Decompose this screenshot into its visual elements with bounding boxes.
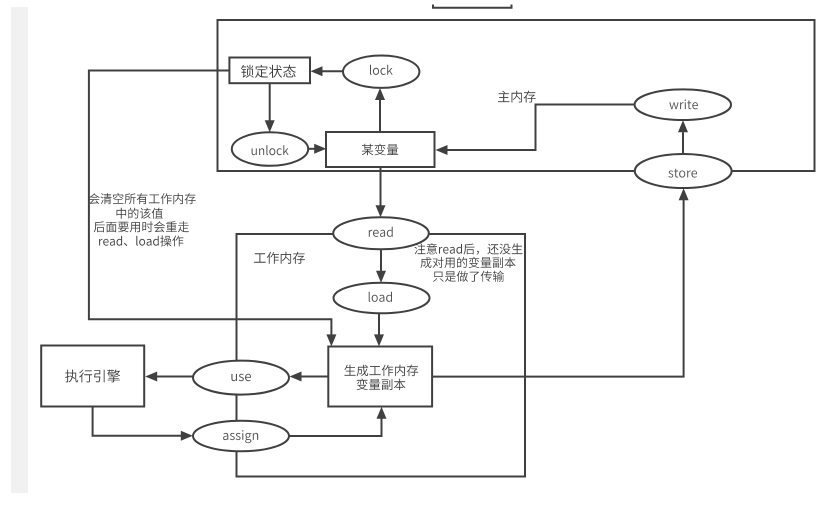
wire copy box to use (301, 376, 328, 378)
wire read to load (380, 249, 382, 271)
ellipse read (333, 217, 429, 249)
box 锁定状态 (229, 58, 310, 84)
label unlock (252, 145, 289, 155)
ellipse load (334, 283, 430, 314)
label load (369, 292, 392, 302)
wire use to 执行引擎 (157, 376, 193, 378)
label store (668, 169, 697, 178)
ellipse assign (193, 421, 289, 452)
note 会清空所有工作内存 (89, 193, 196, 204)
wire 执行引擎 to assign (93, 407, 181, 436)
label write (669, 100, 698, 110)
label 锁定状态 (241, 65, 296, 78)
wire 某变量 to lock (379, 100, 381, 132)
label 主内存 (498, 91, 536, 103)
box 某变量 (326, 132, 435, 167)
note 只是做了传输 (433, 271, 504, 282)
label assign (223, 430, 258, 443)
wire load to copy box (378, 314, 380, 336)
wire assign to copy box (289, 419, 382, 437)
ellipse store (635, 154, 732, 188)
label 执行引擎 (65, 370, 120, 383)
ellipse write (635, 89, 731, 120)
wire unlock to 某变量 (308, 148, 315, 150)
label 某变量 (362, 144, 398, 156)
cropped box bottom edge (433, 5, 512, 8)
wire store to write (682, 132, 684, 154)
wire write to 某变量 (447, 105, 635, 151)
note read、load操作 (99, 235, 183, 246)
label read (369, 227, 393, 237)
wire 锁定状态 to unlock (269, 83, 271, 121)
box 执行引擎 (41, 346, 144, 407)
note 成对用的变量副本 (421, 257, 516, 268)
ellipse use (193, 361, 289, 395)
wire 某变量 to read (380, 168, 382, 206)
ellipse unlock (232, 132, 308, 166)
wire lock to 锁定状态 (321, 70, 343, 72)
wire feedback 锁定状态 to copy box (89, 71, 332, 336)
ellipse lock (343, 55, 419, 87)
scrollbar strip (11, 7, 28, 493)
label 变量副本 (357, 379, 406, 391)
main memory container box (218, 20, 815, 171)
label lock (370, 65, 393, 75)
note 注意read后，还没生 (414, 243, 522, 254)
wire copy box to store (432, 200, 683, 377)
label use (231, 374, 251, 382)
label 生成工作内存 (344, 365, 418, 377)
note 后面要用时会重走 (94, 221, 189, 232)
box 生成工作内存变量副本 (328, 347, 432, 407)
note 中的该值 (117, 208, 163, 219)
label 工作内存 (254, 252, 305, 264)
working memory container box (237, 234, 526, 477)
